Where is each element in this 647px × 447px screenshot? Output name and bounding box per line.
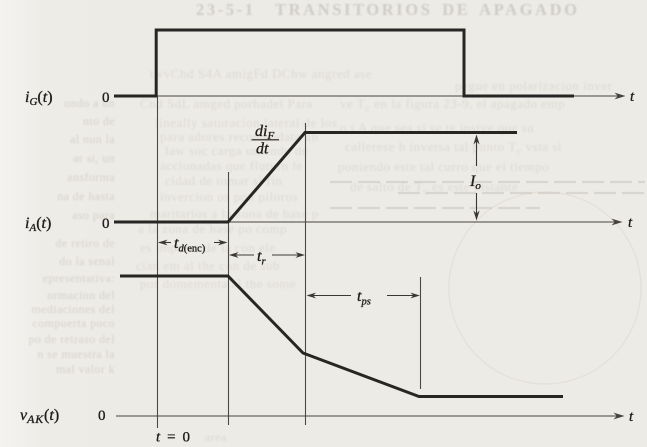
svg-text:iG(t): iG(t) — [25, 89, 53, 108]
svg-text:iA(t): iA(t) — [25, 215, 51, 234]
svg-text:dt: dt — [256, 141, 269, 158]
svg-text:vAK(t): vAK(t) — [20, 407, 59, 426]
svg-text:t: t — [629, 409, 634, 425]
svg-text:0: 0 — [98, 408, 106, 424]
svg-text:Io: Io — [469, 173, 481, 192]
svg-text:diF: diF — [255, 123, 274, 142]
svg-text:0: 0 — [102, 216, 110, 232]
svg-text:0: 0 — [102, 90, 110, 106]
svg-text:tr: tr — [257, 248, 266, 268]
svg-text:t: t — [630, 89, 635, 105]
svg-text:t: t — [628, 215, 633, 231]
svg-text:t = 0: t = 0 — [156, 430, 192, 446]
svg-text:td(enc): td(enc) — [174, 235, 206, 255]
svg-text:tps: tps — [357, 288, 371, 308]
